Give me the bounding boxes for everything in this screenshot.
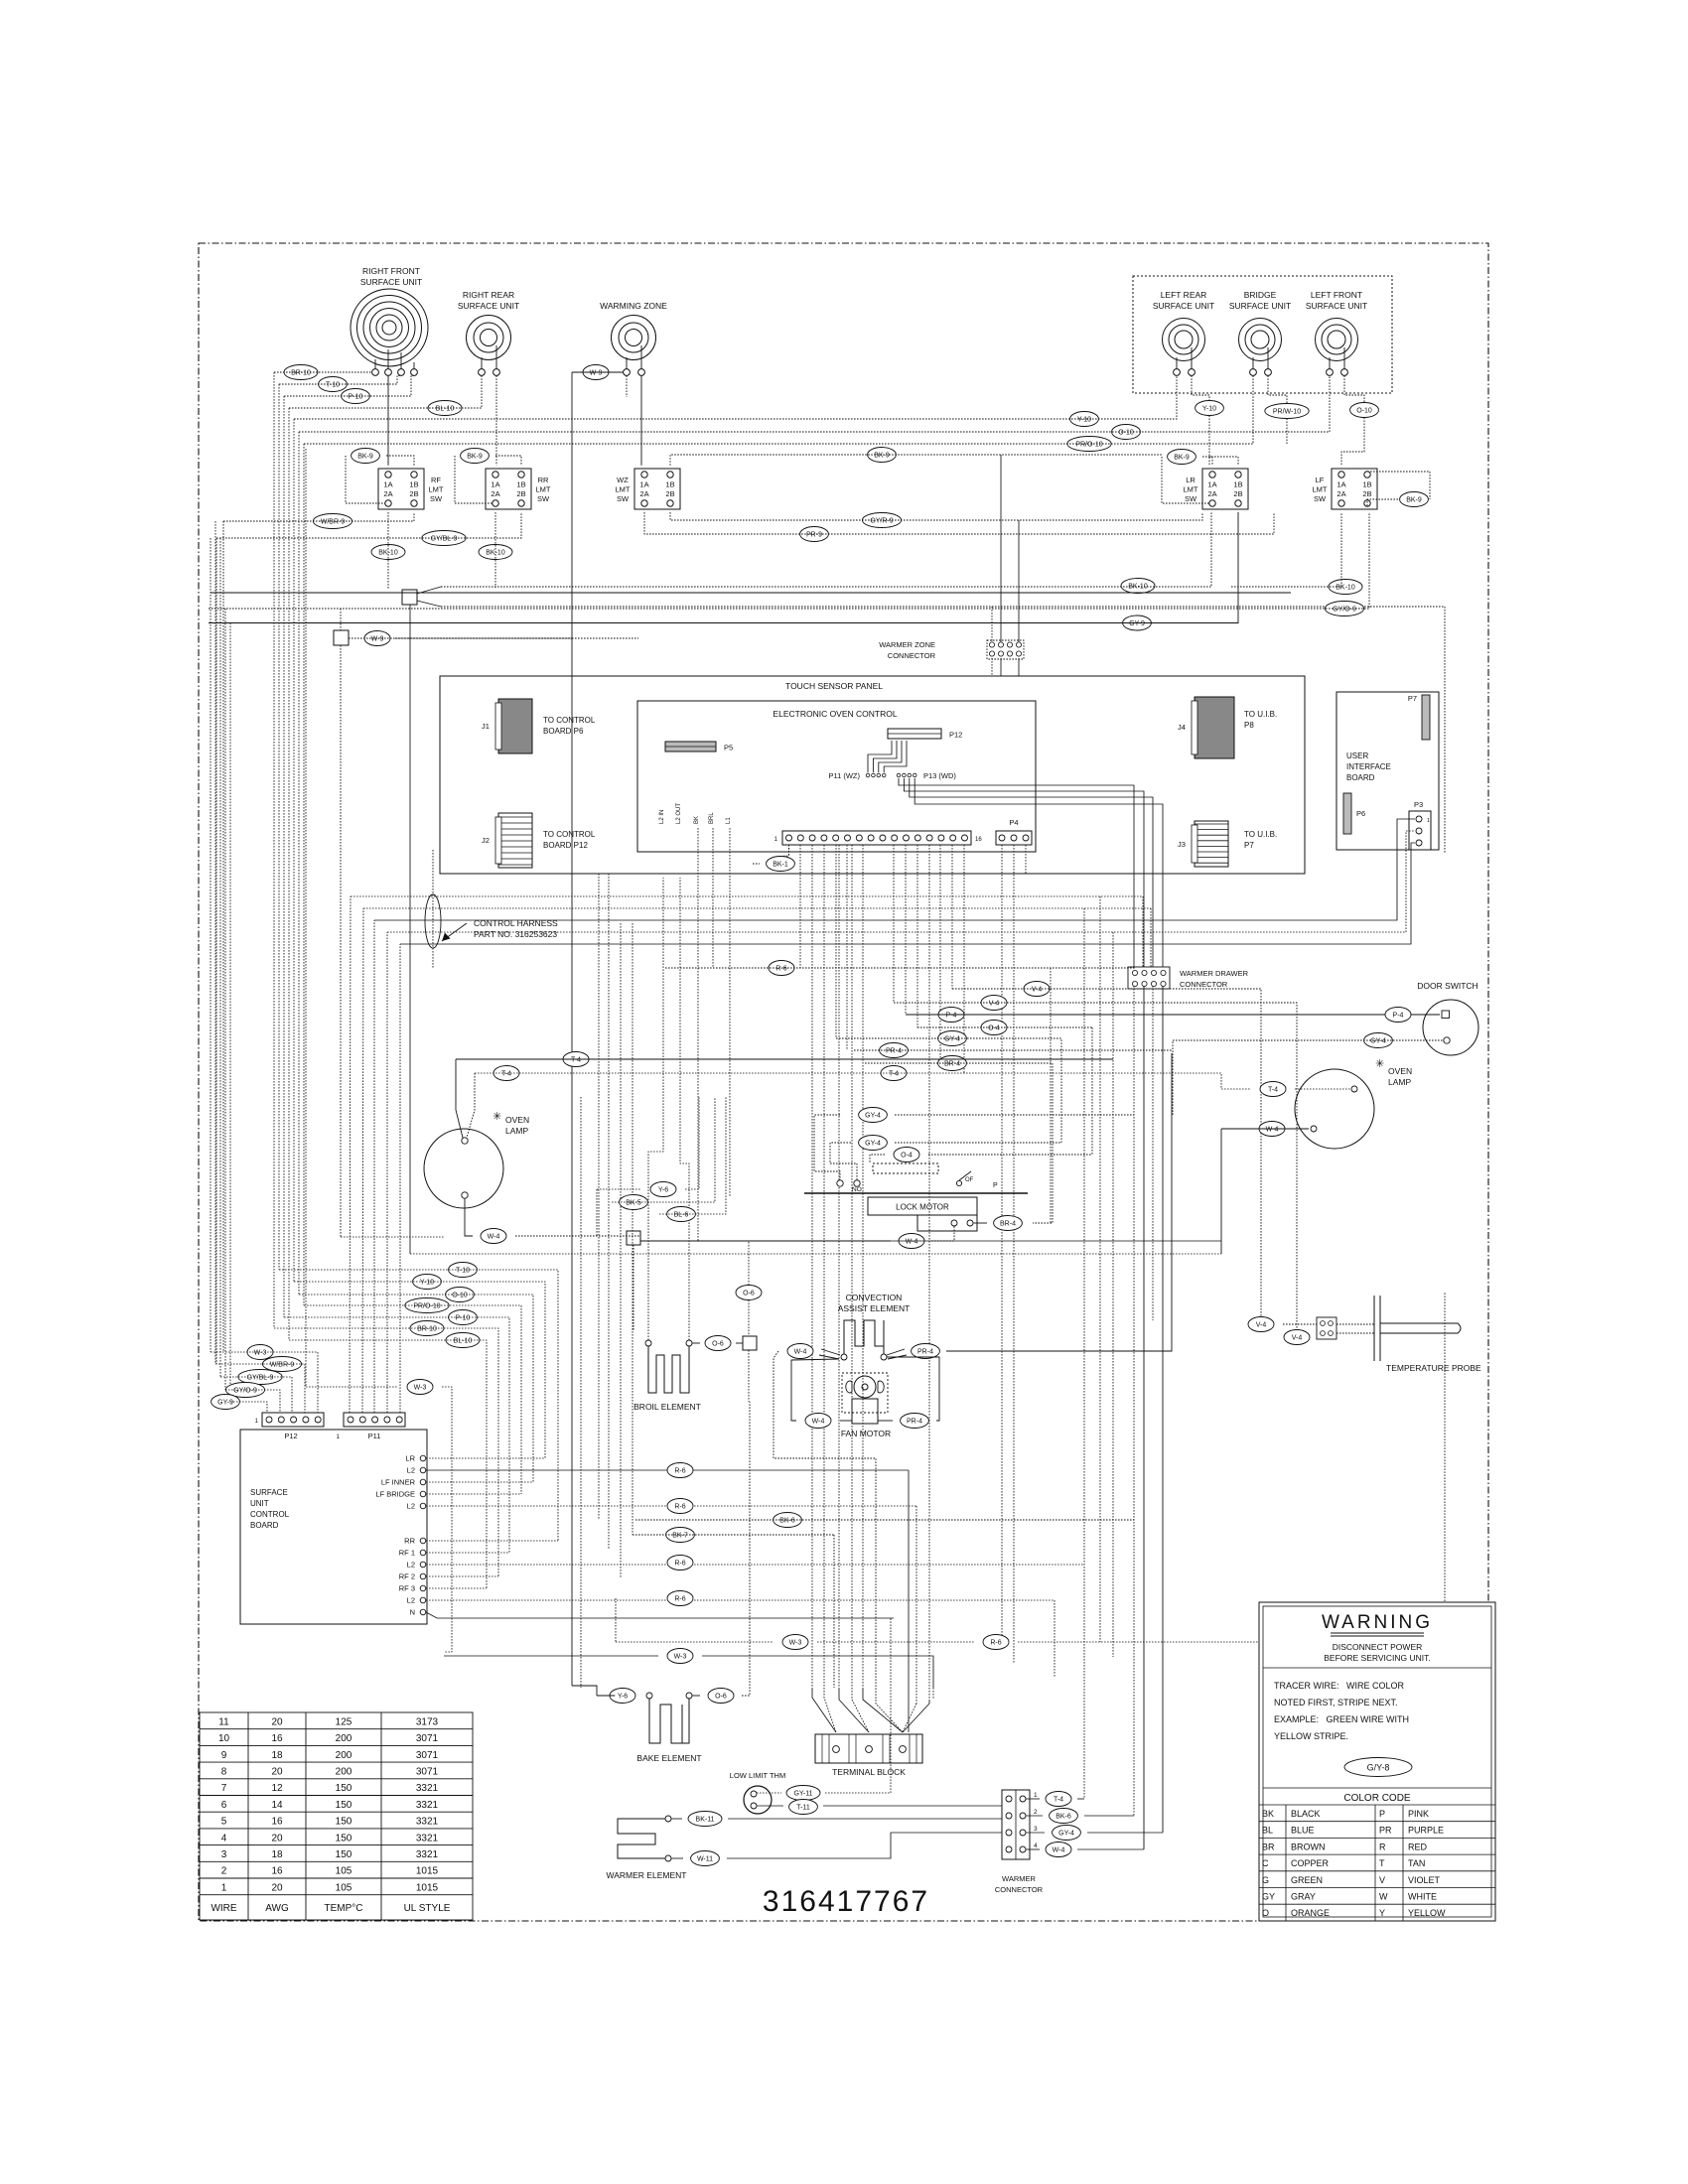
- wire label R-6 (d): [667, 1591, 693, 1606]
- wire label W-3 (right of stack): [407, 1380, 433, 1395]
- svg-text:RF 2: RF 2: [399, 1572, 415, 1581]
- svg-text:N: N: [410, 1608, 415, 1617]
- w: [635, 1519, 1134, 1521]
- svg-text:R-6: R-6: [674, 1595, 685, 1602]
- svg-text:16: 16: [271, 1733, 283, 1744]
- svg-text:L2: L2: [407, 1466, 415, 1475]
- svg-text:ASSIST ELEMENT: ASSIST ELEMENT: [838, 1303, 911, 1313]
- wire GY/R-9 from WZ 2B to LR: [670, 512, 1202, 520]
- svg-text:20: 20: [271, 1833, 283, 1843]
- wire LR t2 to Y-10: [1192, 375, 1209, 400]
- svg-text:Y: Y: [1379, 1908, 1385, 1918]
- wire label BL-10: [428, 401, 462, 416]
- wire O-10 down to LF 1A: [1341, 418, 1364, 466]
- oven lamp (left): [424, 1111, 529, 1208]
- svg-text:WZ: WZ: [617, 476, 629, 484]
- wire label BK-10 (LF run): [1329, 580, 1362, 595]
- svg-text:2B: 2B: [1233, 489, 1242, 498]
- svg-text:CONNECTOR: CONNECTOR: [1180, 980, 1228, 989]
- wire N drop: [426, 1612, 894, 1618]
- svg-text:L2: L2: [407, 1561, 415, 1570]
- right rear surface unit label: [458, 290, 519, 311]
- wire label BK-6: [774, 1513, 802, 1528]
- lock motor lower box: [917, 1215, 977, 1231]
- wire long run 1668: [444, 1656, 933, 1688]
- svg-text:V-4: V-4: [1292, 1334, 1303, 1341]
- wire GY/BL-9 SUCB feed run: [220, 1377, 292, 1413]
- wire label GY-4 (door switch): [1364, 1033, 1393, 1048]
- svg-text:TEMP°C: TEMP°C: [325, 1903, 363, 1914]
- svg-text:GY-4: GY-4: [1058, 1830, 1074, 1837]
- wire label W-3 (SUCB feed): [247, 1345, 273, 1360]
- svg-text:3321: 3321: [416, 1783, 439, 1794]
- touch sensor panel box: [440, 676, 1305, 874]
- wire GY-4 run: [836, 1037, 1061, 1039]
- switch RR LMT SW: [486, 469, 551, 509]
- svg-text:L2 IN: L2 IN: [659, 810, 665, 824]
- svg-text:P7: P7: [1244, 841, 1254, 850]
- label to UIB P7: [1244, 830, 1277, 850]
- wire O-10 SUCB feed run: [299, 1295, 533, 1482]
- svg-text:P: P: [993, 1182, 998, 1189]
- svg-text:PR-4: PR-4: [886, 1047, 902, 1054]
- svg-text:TEMPERATURE PROBE: TEMPERATURE PROBE: [1386, 1363, 1481, 1373]
- svg-text:7: 7: [221, 1783, 227, 1794]
- wire T-4 solid run: [456, 1058, 1113, 1060]
- user interface board box: [1336, 692, 1439, 850]
- wire label P-10: [342, 389, 370, 404]
- EOC rotated pin labels: [659, 803, 732, 824]
- svg-text:16: 16: [271, 1866, 283, 1877]
- svg-text:2B: 2B: [409, 489, 418, 498]
- svg-text:O: O: [1262, 1908, 1269, 1918]
- svg-text:✳: ✳: [1375, 1058, 1384, 1070]
- svg-text:P6: P6: [1356, 809, 1365, 818]
- svg-text:3: 3: [221, 1849, 227, 1860]
- svg-text:150: 150: [336, 1849, 352, 1860]
- svg-text:TOUCH SENSOR PANEL: TOUCH SENSOR PANEL: [785, 681, 883, 691]
- mid horizontal harness runs: [351, 819, 1415, 944]
- svg-text:BK-9: BK-9: [357, 453, 373, 460]
- svg-text:TO U.I.B.: TO U.I.B.: [1244, 830, 1277, 839]
- wire label O-6 (broil): [705, 1336, 731, 1351]
- svg-text:LEFT REAR: LEFT REAR: [1161, 290, 1207, 300]
- svg-text:V-4: V-4: [1256, 1321, 1267, 1328]
- control harness ellipse: [425, 894, 441, 948]
- wire bridge t2 to PR/W-10: [1268, 375, 1287, 403]
- w2: [887, 1357, 939, 1421]
- SUCB connector P11: [337, 1413, 405, 1440]
- svg-text:NOTED FIRST, STRIPE NEXT.: NOTED FIRST, STRIPE NEXT.: [1274, 1698, 1398, 1707]
- wire label GY-11: [786, 1786, 820, 1801]
- svg-text:1A: 1A: [491, 480, 499, 489]
- wire label O-4 (lock): [894, 1148, 919, 1162]
- surface unit control board box: [240, 1430, 427, 1624]
- warmer element: [618, 1819, 665, 1858]
- svg-text:TO CONTROL: TO CONTROL: [543, 830, 596, 839]
- wire label P-10 (SUCB feed): [449, 1310, 478, 1325]
- svg-text:W-4: W-4: [1053, 1846, 1065, 1853]
- svg-text:BK-9: BK-9: [1406, 496, 1422, 503]
- svg-text:W/BR-9: W/BR-9: [321, 518, 346, 525]
- wire PR/W-10 down: [1286, 419, 1288, 445]
- svg-text:BROWN: BROWN: [1291, 1842, 1326, 1851]
- wire W/BR-9 drop left: [222, 521, 224, 1352]
- bake element: [649, 1699, 689, 1743]
- svg-text:RIGHT REAR: RIGHT REAR: [463, 290, 514, 300]
- wire GY-11 runs: [757, 1618, 1002, 1806]
- EOC 16-pin terminal strip: [774, 831, 983, 845]
- svg-text:SW: SW: [1314, 494, 1327, 503]
- svg-text:P5: P5: [724, 744, 733, 752]
- right front unit terminals: [372, 369, 418, 376]
- wire label V-4 (lower): [981, 996, 1007, 1011]
- wire label R-6 (long run): [983, 1635, 1009, 1650]
- svg-text:T-10: T-10: [456, 1267, 470, 1274]
- svg-text:YELLOW: YELLOW: [1408, 1908, 1446, 1918]
- wire label GY/BL-9: [422, 531, 466, 546]
- wire label BK-10 (run right): [1121, 579, 1155, 594]
- svg-text:BK-11: BK-11: [696, 1816, 715, 1823]
- svg-text:GY: GY: [1262, 1892, 1275, 1902]
- wire label W-3 (lower): [667, 1649, 693, 1664]
- SUCB output wires: [426, 1458, 1084, 1600]
- svg-text:TO CONTROL: TO CONTROL: [543, 716, 596, 725]
- svg-text:BK-9: BK-9: [1174, 454, 1190, 461]
- broil element: [648, 1346, 689, 1393]
- svg-text:BL-6: BL-6: [674, 1211, 689, 1218]
- wire Y-10 SUCB feed run: [294, 1282, 545, 1458]
- svg-text:3173: 3173: [416, 1716, 439, 1727]
- svg-text:LAMP: LAMP: [1388, 1077, 1411, 1087]
- svg-text:1015: 1015: [416, 1882, 439, 1893]
- harness fan lines node 1: [417, 587, 441, 607]
- svg-text:DISCONNECT POWER: DISCONNECT POWER: [1333, 1642, 1423, 1652]
- heating coil: warming zone: [612, 316, 656, 360]
- svg-text:GREEN: GREEN: [1291, 1875, 1323, 1885]
- svg-text:LF INNER: LF INNER: [381, 1478, 416, 1487]
- wire label BK-9 (LR): [1168, 450, 1196, 465]
- connector J3: [1178, 821, 1228, 867]
- wire label O-10 (bus): [1112, 425, 1141, 440]
- svg-text:BK-6: BK-6: [779, 1517, 795, 1524]
- svg-text:2A: 2A: [1336, 489, 1345, 498]
- svg-text:1B: 1B: [409, 480, 418, 489]
- svg-text:OVEN: OVEN: [505, 1115, 529, 1125]
- svg-text:PR/W-10: PR/W-10: [1273, 408, 1301, 415]
- svg-text:PR-4: PR-4: [907, 1418, 922, 1425]
- wire BK-1 left stub: [753, 863, 760, 865]
- svg-text:SURFACE UNIT: SURFACE UNIT: [1306, 301, 1367, 311]
- wire BK-9 loop LR: [1162, 457, 1209, 503]
- wire Y-6 run: [597, 1097, 699, 1237]
- w: [974, 1222, 988, 1224]
- svg-text:DOOR SWITCH: DOOR SWITCH: [1417, 981, 1477, 991]
- svg-text:P8: P8: [1244, 721, 1254, 730]
- svg-text:P11: P11: [368, 1432, 381, 1440]
- svg-text:UNIT: UNIT: [250, 1499, 269, 1508]
- wire label O-6 (vertical): [736, 1286, 762, 1300]
- mid-left long verticals: [581, 874, 633, 1688]
- svg-text:10: 10: [218, 1733, 230, 1744]
- heating coil: left rear surface unit: [1163, 319, 1205, 361]
- fan motor: [842, 1373, 888, 1424]
- wire label T-4 (run): [881, 1066, 907, 1081]
- P13 wires to warmer drawer connector: [899, 778, 1163, 967]
- right rear unit terminals: [479, 369, 500, 376]
- svg-text:LMT: LMT: [429, 485, 444, 494]
- svg-text:BK: BK: [694, 816, 700, 824]
- wire T-10 to RF terminal3: [279, 375, 401, 384]
- svg-text:R-6: R-6: [775, 965, 786, 972]
- svg-text:R-6: R-6: [674, 1503, 685, 1510]
- svg-text:FAN MOTOR: FAN MOTOR: [841, 1429, 891, 1438]
- svg-text:C: C: [1262, 1858, 1269, 1868]
- EOC pin column wires: [698, 828, 1026, 1700]
- junction square harness node 1: [402, 590, 417, 605]
- svg-text:3071: 3071: [416, 1750, 439, 1761]
- svg-text:GY/BL-9: GY/BL-9: [431, 535, 458, 542]
- wire BR-4 run to lock motor: [865, 1063, 1053, 1223]
- wire BK-11 run: [671, 1818, 1002, 1820]
- wire label BL-10 (SUCB feed): [446, 1333, 480, 1348]
- UIB connector P7: [1408, 694, 1430, 740]
- svg-text:O-6: O-6: [743, 1290, 755, 1297]
- svg-text:O-10: O-10: [1356, 407, 1372, 414]
- wire BK-9 loop LF bottom: [1367, 499, 1398, 506]
- low limit thermostat: [730, 1771, 785, 1814]
- svg-text:J2: J2: [482, 836, 490, 845]
- wire label PR/W-10 (bridge): [1265, 404, 1309, 419]
- wire label T-4 (dotted run): [493, 1066, 519, 1081]
- wire T-4 dotted run: [475, 1073, 1221, 1089]
- svg-text:WIRE: WIRE: [211, 1903, 236, 1914]
- svg-text:11: 11: [218, 1716, 229, 1727]
- svg-text:GY-4: GY-4: [865, 1112, 881, 1119]
- svg-text:LF BRIDGE: LF BRIDGE: [375, 1490, 415, 1499]
- svg-text:4: 4: [221, 1833, 227, 1843]
- wire label T-10 (SUCB feed): [449, 1263, 478, 1278]
- wire BK-9 to RR 1B: [495, 456, 521, 466]
- svg-text:4: 4: [1034, 1843, 1038, 1849]
- wire W-9 run right: [395, 637, 572, 639]
- wire label W/BR-9: [313, 514, 352, 529]
- svg-text:150: 150: [336, 1833, 352, 1843]
- svg-text:WARMER DRAWER: WARMER DRAWER: [1180, 969, 1249, 978]
- svg-text:R: R: [1379, 1842, 1386, 1851]
- svg-text:BK-9: BK-9: [467, 453, 483, 460]
- wire W-9 long vertical: [571, 372, 573, 1686]
- w2: [928, 1154, 1092, 1156]
- svg-text:316417767: 316417767: [763, 1885, 929, 1918]
- wire label Y-6 (bake): [610, 1689, 635, 1704]
- wire R-6 mid run to warmer drawer conn: [665, 967, 1135, 969]
- control harness text: [474, 918, 558, 939]
- wire label W-9 (warming zone): [583, 365, 609, 380]
- wire label R-6 (L2 b): [667, 1499, 693, 1514]
- junction square harness node 2: [334, 630, 349, 645]
- wire GY/O-9 run to LF 2B: [209, 512, 1369, 609]
- wire label T-11: [789, 1800, 818, 1815]
- oven lamp (right): [1295, 1058, 1412, 1149]
- wire label Y-10 (SUCB feed): [413, 1275, 442, 1290]
- svg-text:5: 5: [221, 1817, 227, 1828]
- terminal block: [815, 1734, 922, 1777]
- svg-text:ORANGE: ORANGE: [1291, 1908, 1330, 1918]
- svg-text:200: 200: [336, 1733, 352, 1744]
- svg-text:P4: P4: [1009, 818, 1018, 827]
- wire Y-10 down to LR 1A: [1208, 416, 1210, 466]
- wire GY-9 SUCB feed run: [230, 1402, 267, 1413]
- heating coil: bridge surface unit: [1239, 319, 1282, 361]
- svg-text:BL-10: BL-10: [436, 405, 455, 412]
- svg-text:L2: L2: [407, 1502, 415, 1511]
- svg-text:1: 1: [1427, 818, 1430, 824]
- color code table: [1259, 1805, 1495, 1921]
- wire WZ t2 down: [640, 375, 642, 465]
- wire label O-6 (bake): [708, 1689, 734, 1704]
- wire PR-4 run: [854, 1049, 1172, 1051]
- svg-text:CONTROL HARNESS: CONTROL HARNESS: [474, 918, 558, 928]
- wire convection PR-4 funnel: [887, 1349, 907, 1359]
- svg-text:LAMP: LAMP: [505, 1126, 528, 1136]
- svg-text:RF 1: RF 1: [399, 1549, 415, 1558]
- wire BK-1 hook: [780, 848, 789, 857]
- connector P13 (WD): [897, 771, 956, 780]
- svg-text:TRACER WIRE: WIRE COLOR: TRACER WIRE: WIRE COLOR: [1274, 1681, 1405, 1691]
- svg-text:BEFORE SERVICING UNIT.: BEFORE SERVICING UNIT.: [1324, 1653, 1431, 1663]
- svg-text:PINK: PINK: [1408, 1809, 1429, 1819]
- svg-text:L1: L1: [726, 817, 732, 824]
- svg-text:BK-7: BK-7: [672, 1532, 688, 1539]
- wire label R-6 (mid run): [769, 961, 794, 976]
- svg-text:P13 (WD): P13 (WD): [923, 771, 956, 780]
- svg-text:G: G: [1262, 1875, 1269, 1885]
- svg-text:T-4: T-4: [501, 1070, 511, 1077]
- svg-text:SURFACE UNIT: SURFACE UNIT: [360, 277, 422, 287]
- svg-text:WARMER ELEMENT: WARMER ELEMENT: [607, 1870, 687, 1880]
- wire label W-4 (right lamp): [1259, 1122, 1285, 1137]
- svg-text:PR/O-10: PR/O-10: [413, 1302, 440, 1309]
- svg-text:16: 16: [271, 1817, 283, 1828]
- svg-text:2B: 2B: [665, 489, 674, 498]
- wires coil to terminals LR: [1177, 347, 1192, 369]
- svg-text:OVEN: OVEN: [1388, 1066, 1412, 1076]
- w: [830, 1143, 857, 1179]
- wire label BK-1: [767, 857, 795, 872]
- wire label BK-11: [688, 1812, 722, 1827]
- wire label W-4 (lock motor): [899, 1234, 924, 1249]
- svg-text:BK-5: BK-5: [626, 1199, 641, 1206]
- wire node2 drop bottom: [340, 645, 342, 1237]
- svg-text:LR: LR: [1186, 476, 1196, 484]
- connector J1: [482, 699, 532, 753]
- wire W/BR-9 from RF 2B: [223, 512, 414, 521]
- w: [742, 1402, 750, 1696]
- svg-text:BK-9: BK-9: [874, 452, 890, 459]
- wire label GY-9: [1123, 615, 1152, 630]
- svg-text:NO: NO: [852, 1186, 862, 1193]
- mid right vertical cluster: [1051, 896, 1113, 1799]
- svg-text:Y-10: Y-10: [1077, 416, 1091, 423]
- svg-text:200: 200: [336, 1750, 352, 1761]
- svg-text:125: 125: [336, 1716, 352, 1727]
- svg-text:LMT: LMT: [616, 485, 631, 494]
- svg-text:PR-4: PR-4: [917, 1348, 933, 1355]
- wire BK-7 drop: [833, 1535, 835, 1688]
- svg-text:150: 150: [336, 1800, 352, 1811]
- svg-text:PR/O-10: PR/O-10: [1075, 441, 1102, 448]
- w: [774, 1351, 876, 1700]
- svg-text:Y-6: Y-6: [618, 1693, 628, 1700]
- wire label GY-4 (run): [938, 1031, 967, 1046]
- svg-text:1B: 1B: [1362, 480, 1371, 489]
- temperature probe body: [1336, 1296, 1461, 1361]
- connector P4: [996, 818, 1032, 845]
- heating coil: left front surface unit: [1316, 319, 1358, 361]
- svg-text:BR-4: BR-4: [944, 1060, 960, 1067]
- terminal block fan wires: [812, 1676, 929, 1732]
- svg-text:BOARD P12: BOARD P12: [543, 841, 588, 850]
- control harness wire through ellipse: [432, 850, 434, 968]
- svg-text:P-10: P-10: [349, 393, 363, 400]
- svg-text:WARMER: WARMER: [1002, 1874, 1036, 1883]
- svg-text:LR: LR: [405, 1454, 415, 1463]
- control harness leader arrow: [442, 923, 467, 941]
- SUCB output terminals: [375, 1454, 425, 1617]
- svg-text:CONVECTION: CONVECTION: [846, 1293, 903, 1302]
- svg-text:BROIL ELEMENT: BROIL ELEMENT: [633, 1402, 701, 1412]
- svg-text:SW: SW: [430, 494, 443, 503]
- wire T-4 right lamp: [1221, 1088, 1350, 1090]
- svg-text:R-6: R-6: [990, 1639, 1001, 1646]
- svg-text:WARMER ZONE: WARMER ZONE: [879, 640, 935, 649]
- wire BR-10 SUCB feed run: [274, 1328, 498, 1576]
- wire left lamp funnel feeds: [456, 1059, 475, 1138]
- wire label O-4 (run): [981, 1021, 1007, 1035]
- svg-text:2B: 2B: [516, 489, 525, 498]
- svg-text:LMT: LMT: [536, 485, 551, 494]
- wire label GY/R-9: [862, 513, 901, 528]
- svg-text:ELECTRONIC OVEN CONTROL: ELECTRONIC OVEN CONTROL: [773, 709, 897, 719]
- svg-text:W-3: W-3: [674, 1653, 687, 1660]
- svg-text:Y-10: Y-10: [420, 1279, 434, 1286]
- svg-text:LOCK MOTOR: LOCK MOTOR: [896, 1203, 949, 1212]
- right lamp top terminal: [1351, 1086, 1357, 1092]
- P11 riser wires: [350, 896, 400, 1413]
- wire RF t2 to RF 1A: [387, 375, 389, 465]
- wire label BR-10: [284, 365, 318, 380]
- svg-text:2: 2: [221, 1866, 227, 1877]
- wire PR/O-10 bus to bridge t1: [304, 375, 1253, 444]
- wire PR/O-10 SUCB feed run: [304, 1305, 521, 1494]
- switch WZ LMT SW: [616, 469, 681, 509]
- wire P-4 run to door switch: [906, 1014, 1440, 1016]
- UIB connector P3: [1409, 800, 1431, 850]
- wire W-4 right lamp: [1221, 1126, 1317, 1254]
- svg-text:BR-10: BR-10: [417, 1325, 437, 1332]
- svg-text:PURPLE: PURPLE: [1408, 1826, 1444, 1836]
- heating coil: right rear surface unit: [467, 316, 511, 360]
- wire label V-4 (upper): [1024, 982, 1050, 997]
- svg-text:J1: J1: [482, 722, 490, 731]
- wire BK-10 run to LF 2A: [1231, 512, 1341, 587]
- wire label Y-10 (bus): [1070, 412, 1099, 427]
- wire W-3 SUCB feed run: [211, 1352, 318, 1413]
- electronic oven control box: [637, 701, 1036, 852]
- svg-text:O-10: O-10: [1118, 429, 1134, 436]
- svg-text:W-4: W-4: [906, 1238, 918, 1245]
